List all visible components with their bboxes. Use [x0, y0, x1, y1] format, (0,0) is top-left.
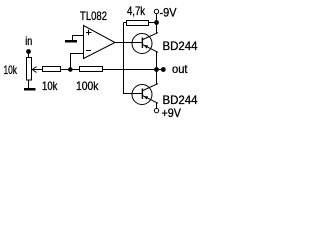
svg-text:BD244: BD244 — [163, 39, 198, 53]
svg-text:out: out — [172, 62, 188, 76]
svg-text:10k: 10k — [42, 79, 58, 93]
svg-text:TL082: TL082 — [80, 9, 107, 23]
svg-text:-9V: -9V — [160, 6, 177, 20]
svg-text:10k: 10k — [4, 63, 18, 77]
svg-text:4,7k: 4,7k — [127, 4, 146, 18]
svg-text:+9V: +9V — [162, 106, 182, 120]
svg-text:100k: 100k — [76, 79, 99, 93]
svg-text:BD244: BD244 — [163, 93, 198, 107]
svg-text:in: in — [25, 34, 32, 48]
